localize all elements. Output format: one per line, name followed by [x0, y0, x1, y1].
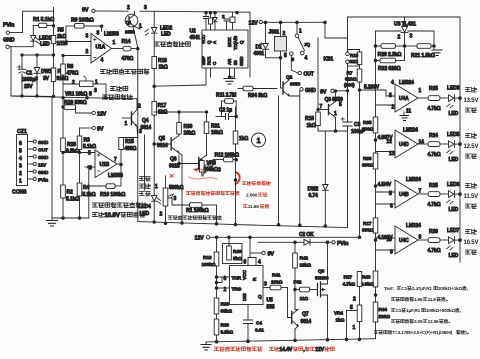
- wire long vertical node B (R14 to bottom rail): [133, 27, 138, 222]
- wire LED2/R16/R17 column x154: [153, 11, 156, 222]
- potentiometer R40 5k (boxed): [223, 237, 243, 263]
- LED LED2: [145, 26, 173, 38]
- wire Q7 emitter to rail: [295, 326, 298, 341]
- resistor R1 5.1k: [33, 17, 55, 28]
- node 12V terminal bottom: [195, 236, 210, 242]
- resistor R41 100 (555 output): [263, 273, 288, 290]
- resistor R24 4.7k: [418, 133, 448, 158]
- ground bottom: [201, 342, 211, 350]
- wire top rail y12 Q1 to U2 to x250: [140, 11, 250, 77]
- wire TL431 loop: [374, 31, 435, 47]
- resistor R14 470 (U1A output): [112, 39, 140, 62]
- node GND terminal center: [289, 88, 316, 96]
- resistor R35 390: [362, 117, 378, 153]
- resistor R11 2.7M: [216, 93, 236, 117]
- label 路灯点亮时间调节电位器: [168, 215, 221, 219]
- resistor R26 4.7k: [418, 229, 448, 254]
- resistor R16 1k: [152, 57, 168, 71]
- transistor Q4 9014: [122, 99, 151, 135]
- potentiometer VR3 500k: [200, 160, 217, 177]
- wire U2 pin stub top right: [230, 13, 235, 30]
- potentiometer VR4 1k: [334, 305, 362, 341]
- resistor R2 5.1k: [61, 153, 79, 219]
- wire divider column x375: [375, 46, 377, 117]
- resistor R29 330: [62, 100, 87, 113]
- junction dots mid-left rail: [52, 95, 107, 99]
- resistor R6 910: [51, 55, 68, 96]
- potentiometer VR2: [155, 176, 177, 223]
- op-amp U4D LM324: [376, 128, 425, 159]
- resistor R21 1.5k: [405, 44, 435, 59]
- transistor Q5 9014: [154, 136, 179, 153]
- resistor R42 10k: [293, 242, 311, 309]
- label VR3 500k value: [204, 167, 222, 174]
- diode D2 0K: [299, 232, 332, 245]
- resistor R33 column x235: [233, 107, 248, 225]
- zener DW2 0.74: [308, 131, 329, 226]
- wire C1/DW1 top rail y55: [22, 54, 54, 56]
- transistor Q1 8050: [125, 5, 147, 35]
- LED LED4: [152, 196, 161, 205]
- resistor R34 3k: [238, 86, 277, 99]
- scan noise overlay: [0, 0, 1, 1]
- wire Q3 emitter node y131: [318, 118, 348, 133]
- transistor Q3 8050: [318, 91, 343, 118]
- diode D3 (U2 top): [213, 13, 217, 30]
- resistor R28 6.8k: [61, 98, 79, 155]
- resistor R17 1k: [152, 102, 167, 116]
- label 路灯延灭时间调节电位器 (red): [186, 191, 239, 195]
- transistor Q6 9015: [169, 155, 206, 172]
- wire 12V rail bottom y237: [210, 236, 361, 239]
- LED LED3: [447, 86, 462, 118]
- IC U5 555: [230, 266, 275, 311]
- wire mid-left rail y97: [11, 96, 137, 99]
- resistor R27 4.7k: [343, 272, 362, 306]
- label red 时亮调节范围: [242, 181, 270, 210]
- wire Q4 emitter to R15: [136, 127, 139, 138]
- node 9V terminal (Q3): [320, 89, 348, 95]
- resistor R13 100k: [202, 237, 219, 341]
- wire 555 pins 8,4: [244, 253, 262, 266]
- wire ground rail left: [52, 98, 89, 219]
- LED LED7: [447, 228, 462, 259]
- op-amp U1A LM358: [63, 26, 119, 63]
- resistor R18 1k: [305, 38, 320, 131]
- resistor R22 620: [374, 46, 404, 72]
- label red 高于11.5V点亮: [464, 183, 479, 208]
- resistor R44 220: [373, 302, 390, 339]
- label red 高于13.5V点亮: [464, 87, 479, 112]
- resistor R31 10k: [204, 111, 223, 156]
- label red 高于10.5V熄灭: [464, 229, 479, 254]
- node circled 1: [252, 133, 266, 147]
- potentiometer VR1 10k: [63, 76, 106, 98]
- wire mid bottom rail y222-227: [138, 221, 348, 228]
- red annotation marks center: [170, 168, 240, 184]
- op-amp U4B LM324: [376, 177, 422, 210]
- label red 高于12.5V点亮: [464, 133, 479, 158]
- node 9V top-left: [82, 8, 95, 14]
- node OUT terminal: [291, 55, 313, 77]
- node 9V terminal bottom: [250, 237, 274, 257]
- resistor R4 5.1k: [77, 153, 95, 219]
- wire Q2 column down: [278, 96, 280, 225]
- wire U1B pin6 input: [85, 166, 95, 169]
- op-amp U1B LM358: [88, 150, 123, 179]
- capacitor C1 1000uF 25V: [18, 54, 38, 97]
- label 过放电检测控制电路: [92, 202, 147, 207]
- capacitor C5 (U2 top decoupling): [204, 13, 209, 30]
- LED LED1: [11, 25, 52, 47]
- op-amp U4C LM324: [376, 223, 422, 256]
- wire U1B output node: [117, 163, 122, 186]
- resistor R9 100k: [66, 18, 103, 42]
- resistor R5 2k 1/1W: [51, 8, 68, 57]
- note text block line5: [374, 330, 468, 335]
- connector CZ1 CON6: [12, 129, 49, 196]
- note text block line3: [391, 308, 460, 313]
- node PVin (input terminal): [3, 23, 14, 35]
- resistor R3 5.1k: [77, 128, 96, 153]
- node 12V mid-left: [76, 111, 107, 117]
- label 低于10.8V停止放电: [92, 212, 144, 219]
- resistor R12 100k: [213, 153, 239, 162]
- note text block line2: [391, 297, 447, 302]
- wire GND column down: [299, 96, 301, 225]
- node PVin terminal bottom: [332, 241, 348, 247]
- resistor R8 470: [61, 54, 79, 99]
- wire PVin to top rail: [10, 11, 54, 32]
- resistor R36 390: [362, 153, 378, 218]
- resistor R20 2.2k: [376, 44, 405, 58]
- resistor R37 390: [362, 218, 378, 271]
- node 9V mid-left: [80, 126, 104, 132]
- resistor R15 480: [119, 138, 138, 165]
- note text block line4: [391, 319, 450, 324]
- LED LED5: [447, 132, 462, 163]
- wire Q6 collector down to VR3: [203, 172, 206, 176]
- label red 过充电检测控制电路: [214, 347, 262, 352]
- label column 路灯 灭亮指示: [139, 176, 152, 217]
- resistor R38 68k: [214, 298, 232, 315]
- node 12V terminal top: [249, 20, 263, 26]
- wire 555 pins 6,2: [215, 276, 229, 293]
- capacitor C6 (U2 top): [209, 13, 213, 30]
- wire 12V rail y22: [263, 21, 326, 24]
- vertical wire node C x144: [144, 135, 146, 190]
- IC U3 TL431: [394, 17, 416, 46]
- resistor R23 4.7k: [418, 183, 448, 208]
- label red 高于14.4V停充,低于12V充电: [269, 347, 334, 353]
- relay J001: [269, 22, 288, 59]
- node GND (input terminal): [3, 38, 15, 49]
- capacitor C7 (U2 top right): [222, 14, 229, 30]
- op-amp U4A LM324: [376, 80, 422, 121]
- capacitor C4 0.01: [244, 305, 265, 343]
- resistor R43 3.9k: [361, 271, 378, 302]
- wire bottom rail y341: [206, 338, 376, 343]
- note text block line1: [384, 286, 468, 291]
- resistor R25 4.7k: [418, 86, 448, 112]
- wire Q5 emitter down: [179, 153, 183, 224]
- capacitor C3 100uF: [341, 90, 365, 228]
- wire 9V rail to Q1: [95, 10, 128, 12]
- diode D1 4001: [254, 22, 269, 57]
- transistor Q8 50N06 MOSFET: [315, 242, 329, 341]
- photoresistor R19 820: [348, 50, 362, 70]
- resistor R1' 100k (timing): [168, 198, 217, 224]
- wire top-right frame: [348, 17, 461, 262]
- ground symbol left: [47, 218, 58, 226]
- wire 5.2V node to U4A pin5: [360, 90, 396, 96]
- resistor R39 3.3k: [214, 319, 233, 336]
- resistor R7 910 (900): [344, 69, 362, 237]
- capacitor C2 1uF: [216, 108, 238, 120]
- photoswitch KS1 terminals: [324, 52, 350, 64]
- wire PVin line y242: [258, 241, 329, 244]
- resistor R10 100k feedback: [89, 167, 125, 198]
- wire 12V rail corner to KS1 frame: [324, 21, 348, 38]
- label block 开灯检测控制电路: [100, 69, 148, 74]
- IC U2 4541: [190, 29, 249, 69]
- wire center-mid top rail y112: [154, 111, 206, 113]
- transistor Q2 8050: [281, 75, 301, 97]
- wire U1B pin5 input: [62, 151, 95, 153]
- label 路灯熄灭指示: [154, 41, 190, 46]
- LED LED6: [447, 182, 462, 213]
- label 开灯点: [110, 86, 127, 91]
- ground U2: [224, 68, 235, 84]
- transistor Q7 9014: [288, 288, 312, 327]
- resistor R30 10k: [177, 112, 196, 137]
- switch JQ contacts: [290, 24, 311, 62]
- label 调节电位器: [102, 94, 132, 99]
- wire GND down-left rail: [9, 47, 53, 97]
- ground U3: [432, 46, 442, 56]
- wire U2 bottom pin to left rail: [154, 68, 210, 86]
- wire D1 to relay bottom: [266, 57, 282, 80]
- zener DW1 3V: [34, 54, 52, 97]
- resistor R45 10 (gate): [294, 280, 318, 303]
